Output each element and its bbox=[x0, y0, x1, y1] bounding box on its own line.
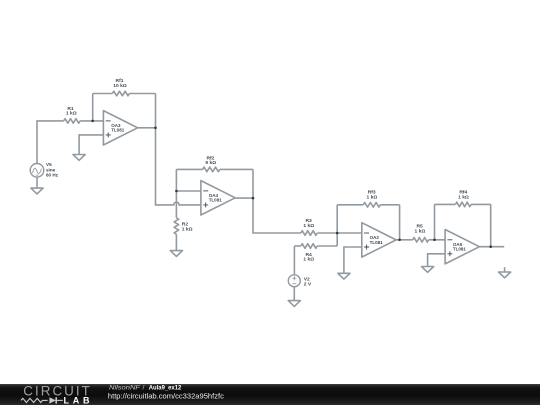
wire OA4 output down to R3 line bbox=[253, 198, 301, 233]
resistor Rf2 9 kOhm (feedback) with loop wires bbox=[176, 168, 202, 170]
resistor R5 1 kOhm bbox=[413, 238, 429, 243]
wire R3 to OA2 inverting input bbox=[317, 232, 362, 234]
op-amp OA5 TL081 bbox=[445, 230, 479, 264]
svg-text:1 kΩ: 1 kΩ bbox=[66, 111, 77, 117]
wire summing node vertical (Rf3 left leg to R4) bbox=[336, 205, 338, 246]
junction node OA4 output bbox=[252, 197, 255, 200]
resistor R3 1 kOhm bbox=[301, 231, 317, 236]
junction node OA4 inverting input bbox=[175, 190, 178, 193]
svg-text:TL081: TL081 bbox=[209, 198, 223, 203]
wire OA4 output bbox=[235, 197, 253, 199]
ground below V2 bbox=[288, 301, 300, 307]
svg-text:http://circuitlab.com/cc332a95: http://circuitlab.com/cc332a95hfzfc bbox=[108, 392, 224, 401]
svg-text:9 kΩ: 9 kΩ bbox=[205, 160, 216, 166]
wire V5 bottom to ground bbox=[36, 177, 38, 188]
wire OA2 output to R5 bbox=[396, 239, 413, 241]
wire OA5 non-inverting input to ground bbox=[428, 254, 446, 267]
svg-text:1 kΩ: 1 kΩ bbox=[303, 223, 314, 229]
svg-text:TL081: TL081 bbox=[453, 247, 467, 252]
voltage source V5 (sine 60 Hz) bbox=[30, 164, 44, 178]
wire OA5 output bbox=[479, 246, 504, 248]
wire R1 to OA3 inverting input bbox=[80, 120, 103, 122]
resistor R2 1 kOhm bbox=[174, 218, 179, 234]
wire Rf2 left leg down through OA4 inverting node to R2 bbox=[175, 169, 177, 217]
wire V5 top to R1 bbox=[37, 121, 64, 164]
voltage source V2 (2 V DC) bbox=[293, 246, 295, 275]
ground below R2 bbox=[170, 251, 182, 257]
svg-text:10 kΩ: 10 kΩ bbox=[113, 83, 127, 89]
ground at OA2 + input bbox=[338, 273, 350, 279]
resistor Rf4 1 kOhm (feedback) with loop wires bbox=[434, 204, 436, 239]
wire OA4 inverting input stub bbox=[176, 190, 201, 192]
junction node OA3 inverting input bbox=[91, 120, 94, 123]
op-amp OA3 TL081 bbox=[103, 111, 137, 145]
ground at OA5 + input bbox=[422, 267, 434, 273]
ground at OA3 + input bbox=[73, 155, 85, 161]
floating ground near output bbox=[499, 272, 511, 278]
junction node OA5 inverting input bbox=[433, 239, 436, 242]
junction node OA2 inverting input bbox=[336, 232, 339, 235]
svg-text:60 Hz: 60 Hz bbox=[46, 173, 59, 178]
wire OA3 output bbox=[138, 127, 156, 129]
wire floating ground stub bbox=[504, 267, 506, 272]
resistor R4 1 kOhm bbox=[294, 245, 301, 247]
junction node OA5 output bbox=[489, 245, 492, 248]
wire R2 to ground bbox=[175, 234, 177, 250]
svg-text:1 kΩ: 1 kΩ bbox=[415, 229, 426, 235]
ground below V5 bbox=[31, 188, 43, 194]
svg-text:1 kΩ: 1 kΩ bbox=[182, 226, 193, 232]
op-amp OA2 TL081 bbox=[362, 223, 396, 257]
svg-text:TL081: TL081 bbox=[111, 128, 125, 133]
svg-text:2 V: 2 V bbox=[304, 281, 312, 287]
CircuitLab logo diode bbox=[49, 397, 56, 403]
wire OA3 output down and right to OA4 + (with crossover hop) bbox=[156, 128, 201, 205]
resistor R1 1 kOhm bbox=[64, 119, 80, 124]
svg-text:1 kΩ: 1 kΩ bbox=[303, 257, 314, 263]
svg-text:LAB: LAB bbox=[64, 395, 91, 405]
op-amp OA4 TL081 bbox=[201, 181, 235, 215]
junction node OA3 output bbox=[154, 127, 157, 130]
svg-text:1 kΩ: 1 kΩ bbox=[367, 195, 378, 201]
wire V2 bottom to ground bbox=[293, 287, 295, 301]
CircuitLab logo resistor zigzag bbox=[21, 398, 48, 402]
resistor Rf3 1 kOhm (feedback) with loop wires bbox=[337, 204, 363, 206]
junction node OA2 output bbox=[398, 239, 401, 242]
resistor Rf1 10 kOhm (feedback) with loop wires bbox=[92, 94, 94, 121]
wire R5 to OA5 inverting input bbox=[429, 239, 446, 241]
wire OA3 non-inverting input to ground bbox=[79, 135, 103, 155]
svg-text:TL081: TL081 bbox=[370, 240, 384, 245]
wire OA2 non-inverting input to ground bbox=[344, 247, 362, 273]
svg-text:1 kΩ: 1 kΩ bbox=[458, 195, 469, 201]
